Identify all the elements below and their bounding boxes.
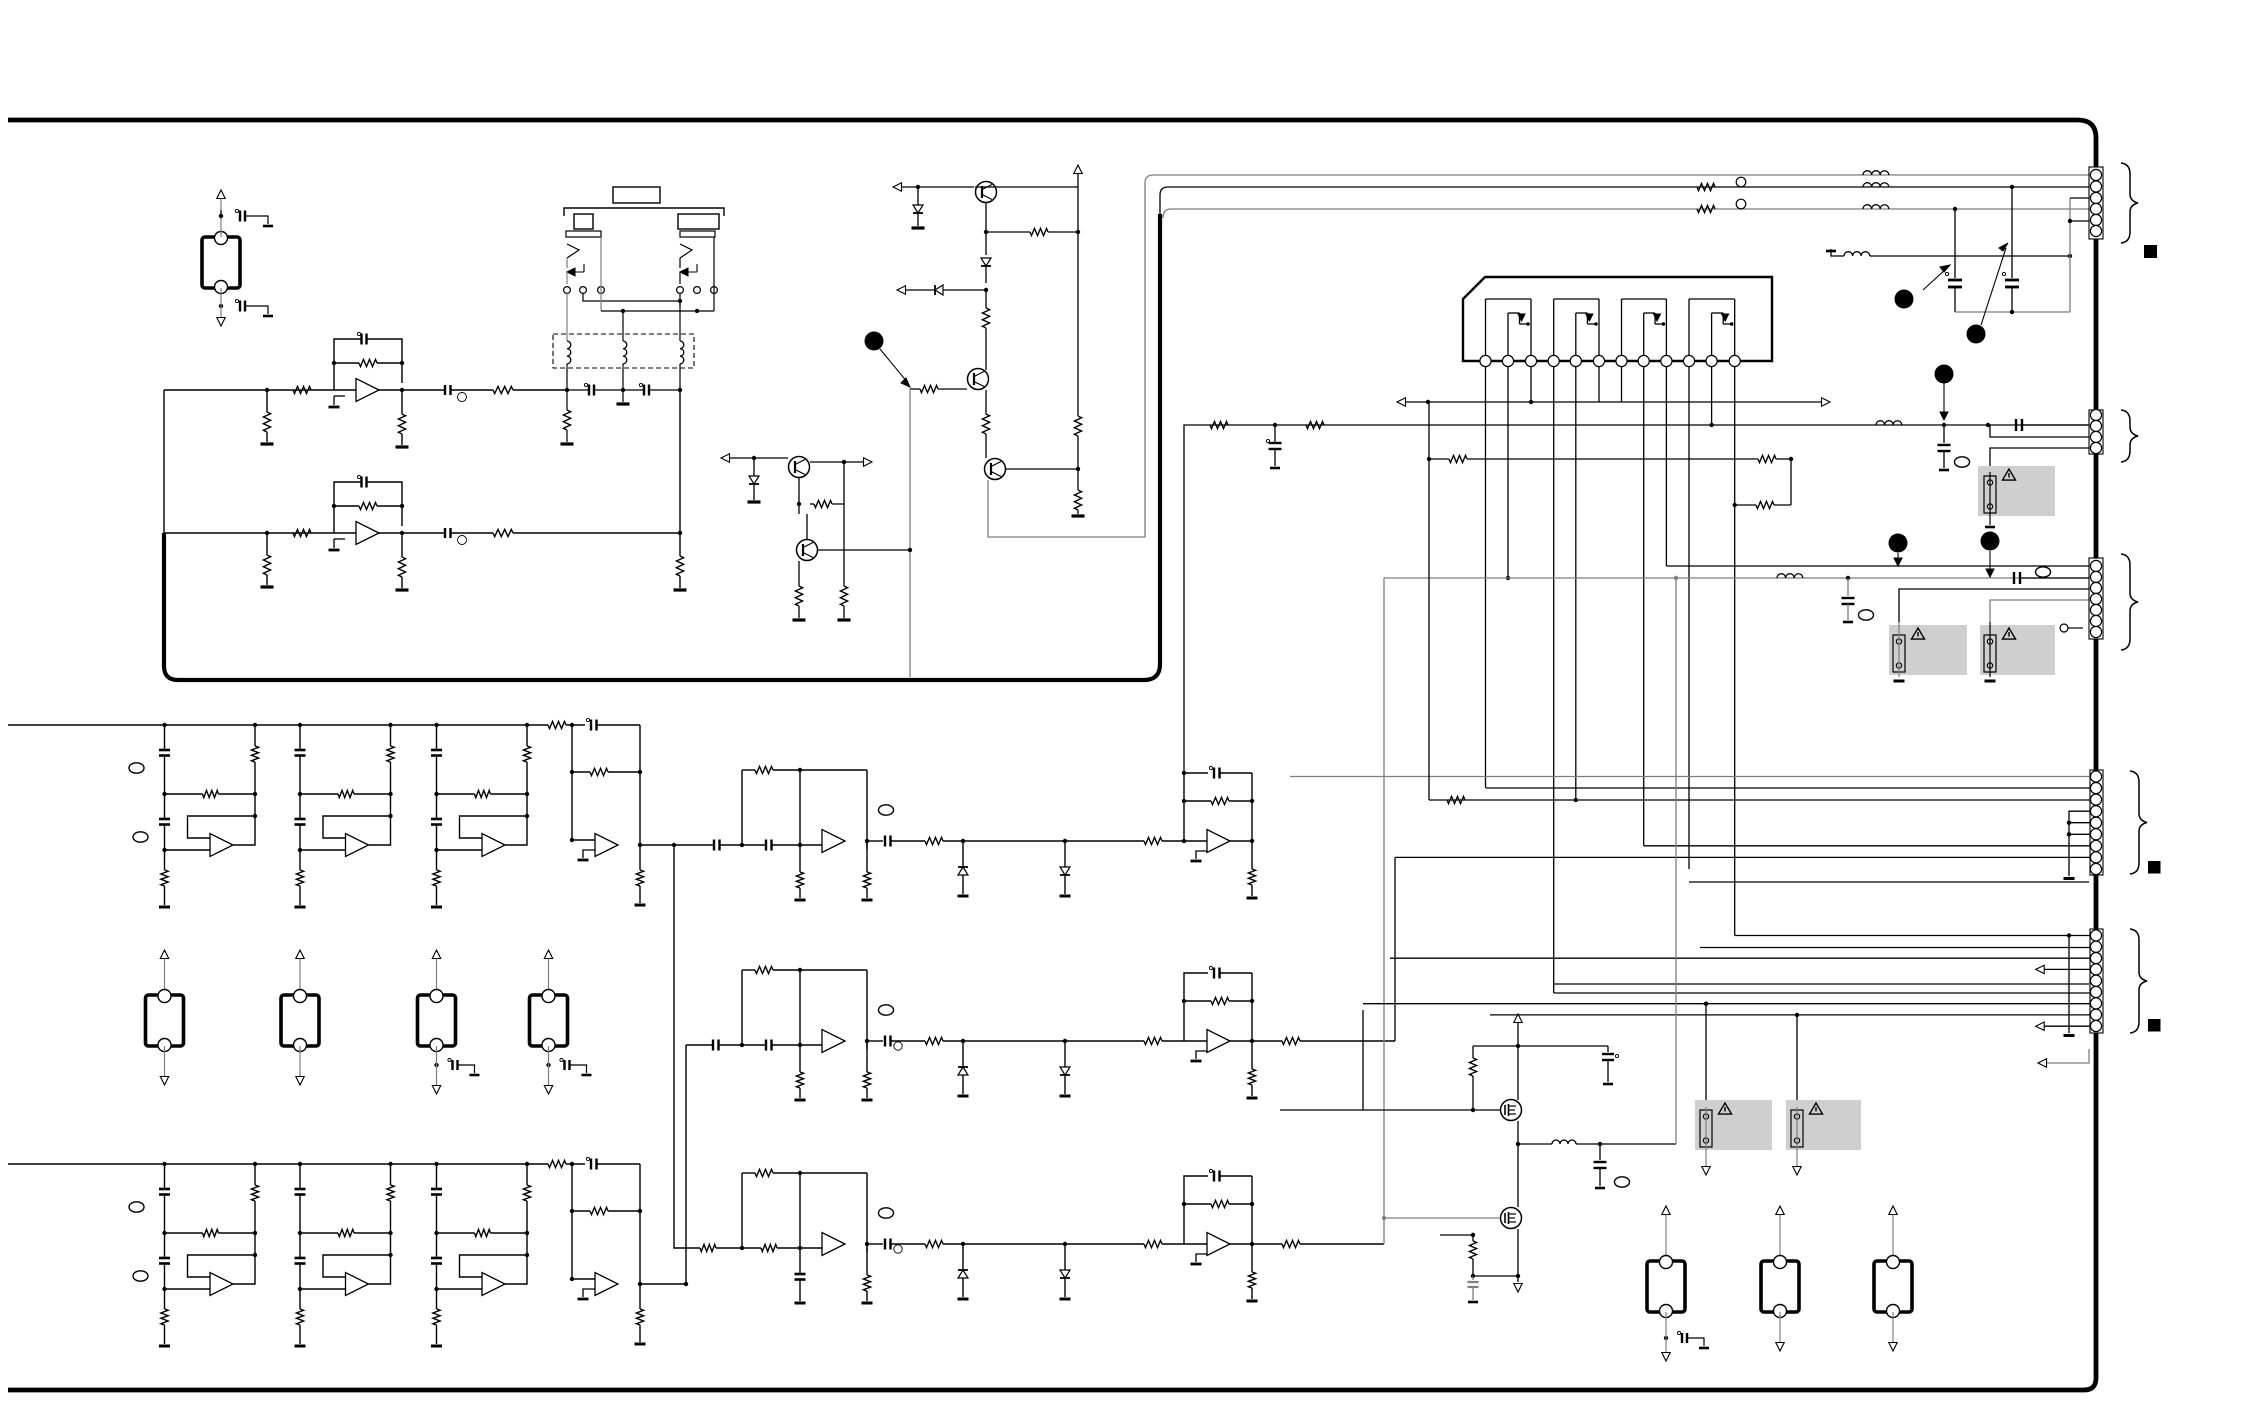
capacitor C8 (U1B out coupling) [444,528,446,538]
band2 capacitor stage4 fb [566,1163,585,1165]
wire Q11 gate-r link [1473,1275,1518,1277]
capacitor C18 (G3 shunt) [1847,578,1849,596]
warning jumper box W3 [1889,625,1967,675]
band1 capacitor stage2 Ca [295,749,306,752]
wire G4 pin2 [1486,787,2096,789]
selector frame line [564,208,724,216]
chain1 test ellipse [879,805,894,815]
wire Q5 out [818,549,910,551]
band2 wire stage3 out [505,1255,527,1284]
op-amp U1A [356,379,379,402]
wire winding C bottom [679,364,681,390]
wire pin7 drop [1621,367,1623,402]
wire op-amp U1A input bus [164,389,356,391]
resistor R20 (Q1-rail) [986,231,1030,233]
callout pointer F [1989,551,1991,571]
band1 wire stage1 node A [164,756,166,795]
wire chain2 out riser [1252,1040,1282,1042]
band2 resistor stage1 Rg [164,1289,166,1309]
band1 wire stage2 out [369,816,391,845]
band1 resistor stage3 Rh [437,793,475,795]
transistor Q3 [985,459,1006,480]
band1 test ellipse stage1 a [129,763,144,773]
band1 op-amp stage2 [346,834,369,857]
arrow jack3 bottom [299,1046,301,1076]
wire contact3 drop [600,237,602,311]
test point (G3 pin7) [2060,624,2068,632]
band1 wire stage3 tap [436,725,438,750]
ground (D4) [748,500,761,503]
chain3 wire fb right [866,1173,868,1252]
wire contact6 drop [713,237,715,311]
brace (CN4) [2130,771,2147,874]
chain1 resistor Rga [799,845,801,872]
node J1 top junction [219,214,223,218]
wire U1B output [378,532,445,534]
chain3 wire +in [800,1247,822,1249]
chain3 resistor Rout g [1251,1244,1253,1272]
chain1 wire -in node [1182,839,1186,843]
IC U2 outline [1463,277,1772,361]
IC U2 cell 4 [1688,299,1690,355]
wire Q10 gate [1473,1109,1500,1111]
wire G2 pin2 loop b [1990,425,2096,437]
band2 wire stage2 tap [299,1164,301,1189]
capacitor C9 (A-B) [584,383,587,386]
inductor L1 (wire B) [1863,183,1889,187]
chain3 op-amp chB [1207,1233,1230,1256]
test point (wire B) [1736,177,1746,187]
ground (R28) [838,618,851,621]
chain2 capacitor Cc [765,1040,767,1051]
chain1 wire +in [800,844,822,846]
wire Q11 source [1517,1144,1519,1207]
node U1B output [400,531,404,535]
wire pin12 drop [1734,367,1736,936]
inductor L2 (wire C) [1863,205,1889,209]
chain2 resistor Rgb [866,1041,868,1072]
band2 resistor stage4 Rin [548,1160,566,1167]
ground (R27) [793,618,806,621]
wire pin4 drop [1553,367,1555,993]
wire right winding top [679,301,681,341]
black square marker (CN4) [2148,861,2161,874]
chain1 wire fb right v [1251,773,1253,841]
chain2 wire in node [719,1044,767,1046]
band1 wire stage2 node A [299,756,301,795]
wire pin9 to G3 pin1 [1666,565,2096,567]
resistor R25 (rail low) [1077,469,1079,490]
chain1 fb resistor [1184,800,1211,802]
wire band2 out join [640,1283,686,1285]
band2 wire bus [8,1163,548,1165]
wire contact5 link [679,294,681,307]
band1 op-amp stage3 [482,834,505,857]
resistor R50 [1472,1046,1474,1058]
ground (U1B + input) [334,538,345,540]
wire G2 pin4 to jumper [1990,448,2096,472]
brace (CN3) [2121,554,2138,650]
chain1 resistor Rgb [866,841,868,872]
node wire C [1953,207,1957,211]
inner thick board boundary (phono section) [164,214,1160,680]
band2 capacitor stage3 Cb [436,1233,438,1258]
node J1 bottom junction [219,304,223,308]
chain1 node out [865,839,869,843]
wire speaker jumper drop L [1705,1004,1707,1107]
band1 resistor stage1 Rv [254,725,256,746]
band2 capacitor stage2 Ca [295,1188,306,1191]
chain3 capacitor Cga [799,1248,801,1274]
band2 op-amp stage3 [482,1273,505,1296]
chain2 ground b [862,1099,873,1102]
node U1A input [265,388,269,392]
wire U1A output [378,389,445,391]
band1 wire stage4 fb right [639,725,641,844]
wire G5 pin6 (pin4 drop) [1554,992,2096,994]
ground (G5 lug) [2068,936,2070,1034]
wire G5 pin8 [1490,1014,2096,1016]
chain2 wire fb right v [1251,973,1253,1041]
connector CN5 pins [2090,930,2101,941]
arrow feed jack3 [296,950,304,959]
band1 resistor stage2 Rg [299,850,301,870]
node U1A output [400,388,404,392]
chain1 wire out [1230,840,1252,842]
band1 resistor stage4 Ro [639,845,641,870]
chain2 resistor Rs2 [1060,1040,1144,1042]
band1 ground stage3 [431,906,442,909]
ground (W4) [1985,680,1996,683]
connector CN4 pins [2090,771,2101,782]
black dot callout A [865,332,884,351]
connector CN1 pins [2090,169,2101,180]
selector contacts row [564,287,571,294]
band1 capacitor stage1 Ca [159,749,170,752]
arrow jack4 bottom [432,1086,440,1095]
wire G4 pin7 (pin8 drop) [1644,845,2096,847]
chain3 wire out [1230,1243,1252,1245]
band1 wire stage4 -in [572,839,595,841]
band1 wire stage1 +in [165,849,211,851]
band1 resistor stage1 Rh [165,793,203,795]
band1 wire stage2 node C [299,825,301,851]
wire G5 pin9 arrow [2036,1022,2045,1030]
wire pin9 drop [1665,367,1667,566]
ground (R16) [674,588,687,591]
resistor R11 (U1B series) [293,529,311,536]
wire winding A bottom [566,364,568,390]
chain1 wire fb mid [799,770,801,845]
chain3 diode Dz [962,1244,964,1270]
capacitor C31 [1599,1144,1601,1160]
resistor network R33 [1429,458,1449,460]
chain3 wire fb right v [1251,1176,1253,1244]
band2 wire stage1 out [233,1255,255,1284]
wire Q11 lower bias [1440,1234,1473,1236]
chain2 op-amp chA [822,1030,845,1053]
node jack4 cap [434,1063,438,1067]
band1 resistor stage3 Rg [436,850,438,870]
wire pin8 drop [1643,367,1645,846]
wire G4 pin10 (pin10 drop) [1689,881,2089,883]
band2 resistor stage2 Rh [300,1232,338,1234]
wire G5 pin4 arrow [2036,965,2045,973]
chain1 diode Dz [962,841,964,867]
chain2 wire out [1230,1040,1252,1042]
jack J4 [418,995,456,1046]
warning jumper box W4 [1980,625,2055,675]
chain2 ground out [1247,1097,1258,1100]
ground (R15) [561,442,574,445]
black square marker (CN5) [2148,1019,2161,1032]
wire amp in upper [1280,1109,1363,1111]
wire Q3 out [1006,468,1078,470]
band1 resistor stage4 Rin [548,721,566,728]
ground wire D [1831,249,1844,256]
warning jumper box W5 [1695,1100,1772,1150]
op-amp U1B [356,522,379,545]
selector contact block right [678,214,719,229]
transistor Q4 [789,457,810,478]
wire Q11 gate grey [1384,1217,1500,1219]
inductor L7 [1518,1143,1552,1145]
resistor R10 (U1B input shunt) [266,533,268,555]
jack JP2 [1761,1261,1799,1312]
chain2 diode Df [1064,1041,1066,1067]
wire G5 pin3 [1390,957,2096,959]
chain2 capacitor Cout [867,1040,883,1042]
resistor R36 [1306,421,1324,428]
resistor R21 [985,290,987,308]
node Q1 base feed [916,185,920,189]
resistor R28 [843,504,845,586]
band2 wire stage3 +in [437,1288,483,1290]
wire selector right vert [679,272,681,284]
callout pointer D [1943,383,1945,414]
wire G5 pin7 [1363,1003,2096,1005]
band2 resistor stage3 Rv [526,1164,528,1185]
band1 op-amp stage4 [595,834,618,857]
arrow feed jack4 [432,950,440,959]
band1 ground stage4 +in [583,850,595,858]
band1 wire bus [8,724,548,726]
chain2 resistor Rga [799,1045,801,1072]
wire pin10 drop [1688,367,1690,869]
transistor Q2 [968,369,989,390]
grey wire G3 main [1384,577,2096,579]
capacitor C19 (G3) [2013,572,2015,584]
ground (R13) [396,588,409,591]
wire G5 pin1 (pin12 drop) [1735,935,2096,937]
band2 resistor stage2 Rg [299,1289,301,1309]
band1 ground stage1 [159,906,170,909]
ground (R8) [396,445,409,448]
diode D4 [753,458,755,476]
wire chain3 input drop [674,845,700,1248]
band1 capacitor stage3 Cb [436,794,438,819]
grey wire Q3 to connector A [988,183,1145,537]
band2 resistor stage1 Rh [165,1232,203,1234]
chain2 node out [865,1039,869,1043]
selector wiper bar right [680,231,715,237]
capacitor jack4 [436,1046,438,1085]
arrow feed phone jack1 [1662,1206,1670,1215]
arrow to other sheet (J1 top) [217,190,225,199]
band2 wire stage2 out [369,1255,391,1284]
band1 op-amp stage1 [210,834,233,857]
transistor Q1 [976,182,997,203]
inductor T1 winding C [680,341,684,364]
ground (R25) [1072,514,1085,517]
wire left winding top [566,294,568,342]
jack JP1 [1647,1261,1685,1312]
dashed transformer box [553,334,694,368]
band2 resistor stage1 Rv [254,1164,256,1185]
ground (D1) [912,226,925,229]
wire G4 pin3 [1428,402,1430,800]
chain2 op-amp chB [1207,1030,1230,1053]
wire G5 pin5 (pin4 drop) [1554,983,2089,985]
inductor L3 (wire A) [1863,171,1889,175]
ground (U1A + input) [334,395,345,397]
band2 ground stage2 [295,1345,306,1348]
wire Q11 drain [1517,1229,1519,1282]
capacitor C30 (+) [1518,1045,1608,1047]
arrow phone jack2 bottom [1779,1312,1781,1342]
resistor R15 (winding A load) [566,390,568,410]
band2 wire stage4 -in [572,1278,595,1280]
wire G2 pin3 loop [1990,425,2096,437]
band2 resistor stage3 Rg [436,1289,438,1309]
chain1 node d2 [1063,839,1067,843]
chain2 test ellipse [879,1005,894,1015]
band2 wire stage1 node C [164,1264,166,1290]
chain3 wire fb mid [799,1173,801,1248]
mosfet Q11 [1501,1208,1522,1229]
chain2 ground chB +in [1196,1051,1207,1059]
band2 wire stage4 fb right [639,1164,641,1283]
ground (W3) [1894,680,1905,683]
wire bias row [1397,398,1406,406]
black square marker (CN1) [2144,245,2157,258]
diode D3 [935,285,943,295]
chain2 ground a [795,1099,806,1102]
resistor R13 (U1B output shunt) [401,533,403,557]
resistor R38 (G4 pin3) [1447,796,1465,803]
band1 resistor stage1 Rg [164,850,166,870]
resistor R24 (rail mid) [1077,232,1079,416]
chain2 node d2 [1063,1039,1067,1043]
capacitor C17 [2015,419,2017,431]
wire winding C to U1B out [679,390,681,533]
chain1 wire in node [720,844,767,846]
chain2 fb resistor [1184,1000,1211,1002]
capacitor C1 (J1 top to gnd) [235,209,238,212]
band1 resistor stage2 Rv [390,725,392,746]
band1 capacitor stage2 Cb [299,794,301,819]
band2 wire stage3 fb loop [526,1233,528,1255]
callout pointer E [1897,553,1899,560]
IC U2 cell 1 [1485,299,1487,355]
chain1 resistor Rs1 [925,837,943,844]
chain2 resistor Rs1 [925,1037,943,1044]
wire center tap [622,311,624,341]
wire G5 pin2 [1700,947,2096,949]
arrow V+ (power) [1514,1014,1522,1023]
resistor R12 (U1B feedback) [334,505,359,507]
chain1 ground out [1247,897,1258,900]
wire Q5 collector up [806,514,808,539]
chain3 node out [865,1242,869,1246]
chain2 diode Dz [962,1041,964,1067]
wire Q1 top [975,186,1078,188]
node phone jack cap [1664,1336,1668,1340]
band2 op-amp stage2 [346,1273,369,1296]
band2 ground stage4 out [635,1343,646,1346]
selector contact block left [574,214,593,229]
trimmer bus [1955,311,2070,313]
chain3 capacitor Cout [867,1243,883,1245]
chain1 resistor Rout g [1251,841,1253,869]
arrow feed Q4 [721,454,730,462]
capacitor C5 (U1A feedback) [334,339,361,390]
band2 wire stage4 fb left [571,1164,573,1279]
band2 capacitor stage1 Cb [164,1233,166,1258]
capacitor C33 [1665,1312,1667,1352]
node wire B [2010,185,2014,189]
node supply c [1986,423,1990,427]
resistor R51 [1469,1241,1476,1259]
arrow feed D3 [897,286,906,294]
wire selector left vert [566,272,568,284]
band1 node stage4 out [638,843,642,847]
resistor R31 (wire C) [1697,205,1715,212]
capacitor C10 (B-C) [639,383,642,386]
selector wiper bar left [566,231,601,237]
arrow (W6) [1796,1150,1798,1166]
wire left input vertical [163,390,165,533]
jack J5 [530,995,568,1046]
chain1 op-amp chB [1207,830,1230,853]
wire gate bias [1473,1045,1518,1047]
grey wire G4 pin1 [1290,776,2096,778]
resistor R8 (U1A output shunt) [401,390,403,414]
band1 wire stage1 node C [164,825,166,851]
capacitor C15 (supply) [1266,439,1269,442]
chain3 resistor Rs1 [925,1240,943,1247]
band1 wire stage2 +in [300,849,346,851]
switch arm left [567,244,579,258]
jack J3 [281,995,319,1046]
inductor L4 (wire D) [1844,252,1870,256]
band2 resistor stage4 Ro [639,1284,641,1309]
wire G1 pin3 loop [2070,197,2096,199]
chain3 test ellipse [879,1208,894,1218]
chain3 ground out [1247,1300,1258,1303]
switch arm arrow left [583,264,585,272]
grey chain3 out riser [1252,1243,1282,1245]
resistor R7 (U1A feedback) [334,362,359,364]
wire speaker jumper drop R [1796,1015,1798,1107]
band1 capacitor stage1 Cb [164,794,166,819]
chain2 capacitor Cin [712,1040,714,1051]
band1 test ellipse stage1 b [133,832,148,842]
arrow to other sheet (J1 bottom) [220,306,222,317]
wire winding B bottom [622,364,624,390]
chain1 ground b [862,899,873,902]
switch arm arrow right [696,264,698,272]
